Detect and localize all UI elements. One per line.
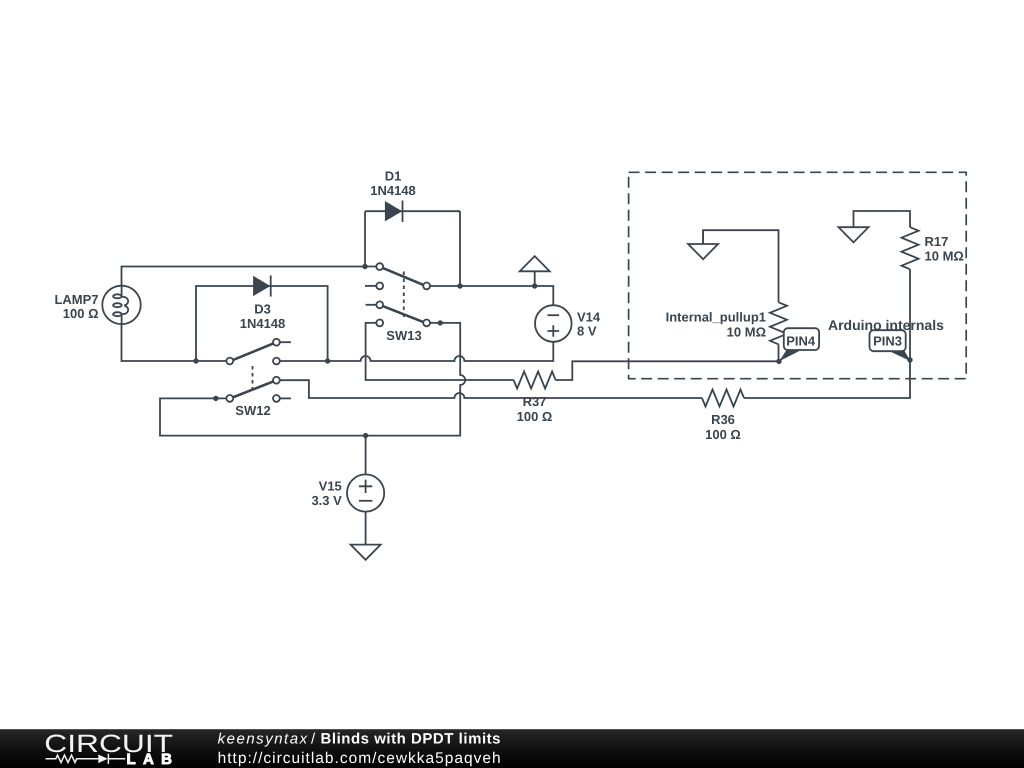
- svg-text:10 MΩ: 10 MΩ: [727, 325, 766, 340]
- svg-text:V14: V14: [577, 310, 601, 325]
- svg-text:PIN4: PIN4: [786, 334, 816, 349]
- svg-text:PIN3: PIN3: [873, 333, 902, 348]
- svg-text:D3: D3: [254, 302, 271, 317]
- wire: [744, 269, 910, 398]
- label Internal_pullup1: [666, 310, 766, 340]
- svg-text:1N4148: 1N4148: [240, 316, 286, 331]
- diode D1: [385, 201, 403, 223]
- wire: [365, 210, 460, 212]
- wire: [556, 361, 779, 380]
- junction: [362, 264, 367, 269]
- lamp LAMP7: [102, 286, 140, 324]
- resistor R17: [902, 227, 919, 269]
- label D1: [370, 169, 416, 199]
- resistor R36: [702, 390, 744, 407]
- svg-text:http://circuitlab.com/cewkka5p: http://circuitlab.com/cewkka5paqveh: [218, 750, 501, 767]
- svg-text:R17: R17: [925, 234, 949, 249]
- switch SW12: [226, 339, 291, 402]
- footer bar: [0, 729, 1024, 768]
- wire: [778, 344, 780, 361]
- label R37: [517, 394, 553, 424]
- junction: [907, 357, 912, 362]
- svg-text:Blinds with DPDT limits: Blinds with DPDT limits: [321, 731, 501, 748]
- wire: [280, 342, 554, 361]
- svg-text:1N4148: 1N4148: [370, 183, 416, 198]
- wire: [365, 512, 367, 545]
- resistor R37: [514, 372, 556, 389]
- voltage source V15: [347, 474, 384, 511]
- wire: [854, 211, 911, 227]
- Arduino internals box: [629, 172, 967, 378]
- svg-text:V15: V15: [319, 479, 342, 494]
- svg-text:8 V: 8 V: [577, 324, 597, 339]
- junction: [363, 433, 368, 438]
- label R36: [705, 412, 741, 442]
- wire: [430, 286, 554, 305]
- svg-text:R36: R36: [711, 412, 735, 427]
- svg-text:100 Ω: 100 Ω: [705, 427, 741, 442]
- wire: [122, 267, 377, 287]
- wire: [365, 436, 367, 475]
- junction: [457, 283, 462, 288]
- svg-text:SW12: SW12: [235, 403, 270, 418]
- svg-text:LAB: LAB: [127, 751, 173, 768]
- switch SW13: [365, 263, 430, 326]
- label V14: [577, 310, 601, 339]
- wire: [196, 286, 328, 361]
- svg-text:SW13: SW13: [386, 328, 421, 343]
- wire: [366, 323, 514, 380]
- ground: [839, 227, 869, 242]
- junction: [193, 358, 198, 363]
- wire: [459, 211, 461, 286]
- junction: [532, 283, 537, 288]
- svg-text:R37: R37: [523, 394, 547, 409]
- svg-text:100 Ω: 100 Ω: [63, 306, 99, 321]
- svg-text:D1: D1: [385, 169, 402, 184]
- label LAMP7: [54, 292, 98, 321]
- svg-text:keensyntax: keensyntax: [218, 731, 308, 748]
- power flag: [520, 256, 550, 286]
- junction: [213, 396, 218, 401]
- FOOTER: [0, 729, 1024, 768]
- voltage source V14: [535, 305, 572, 342]
- wire: [280, 380, 703, 398]
- ground: [351, 545, 381, 560]
- svg-text:LAMP7: LAMP7: [54, 292, 98, 307]
- wire: [122, 324, 227, 361]
- title: [218, 731, 501, 748]
- label R17: [925, 234, 964, 263]
- wire: [703, 230, 778, 302]
- label V15: [311, 479, 342, 508]
- svg-text:Internal_pullup1: Internal_pullup1: [666, 310, 766, 325]
- junction: [776, 359, 781, 364]
- svg-text:3.3 V: 3.3 V: [311, 493, 342, 508]
- diode D3: [253, 275, 271, 296]
- junction: [438, 320, 443, 325]
- pin flag PIN4: [779, 328, 819, 361]
- CircuitLab logo: [44, 730, 173, 768]
- pin flag PIN3: [870, 330, 911, 361]
- resistor Internal_pullup1: [770, 302, 787, 344]
- junction: [325, 358, 330, 363]
- svg-text:10 MΩ: 10 MΩ: [925, 248, 964, 263]
- wire: [364, 211, 366, 266]
- svg-text:100 Ω: 100 Ω: [517, 409, 553, 424]
- wire: [160, 323, 465, 436]
- ground: [688, 230, 718, 259]
- label D3: [240, 302, 286, 331]
